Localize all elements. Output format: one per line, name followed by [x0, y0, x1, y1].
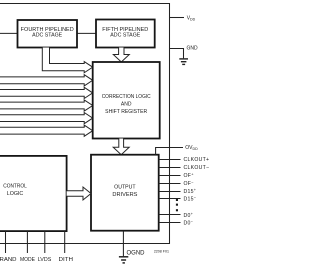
ellipsis dots between D15- and D0+ [176, 199, 178, 211]
svg-text:GND: GND [187, 46, 199, 52]
pin CLKOUT+ [159, 157, 210, 163]
block U5: FIFTH PIPELINED ADC STAGE [96, 20, 155, 48]
pin D0- [159, 218, 194, 226]
pin OGND wire [123, 231, 145, 257]
pin D15- [159, 194, 197, 202]
svg-text:MODE: MODE [20, 257, 36, 263]
pin D0+ [159, 211, 194, 219]
svg-text:CLKOUT+: CLKOUT+ [184, 157, 210, 163]
svg-text:SHIFT REGISTER: SHIFT REGISTER [105, 109, 147, 115]
svg-text:CLKOUT−: CLKOUT− [184, 165, 210, 171]
pin OF+ [159, 171, 195, 179]
bus arrow A5 from left edge into correction logic [0, 113, 93, 124]
chip outline [0, 4, 170, 244]
bus arrow A2 from left edge into correction logic [0, 75, 93, 86]
svg-text:CORRECTION LOGIC: CORRECTION LOGIC [102, 94, 151, 100]
svg-text:2208 F01: 2208 F01 [154, 249, 169, 253]
pin D15+ [159, 187, 197, 195]
svg-text:RAND: RAND [0, 257, 17, 263]
pin LVDS [38, 231, 52, 263]
svg-text:ADC STAGE: ADC STAGE [110, 33, 141, 39]
block U4: FOURTH PIPELINED ADC STAGE [18, 20, 78, 48]
svg-text:DITH: DITH [59, 257, 74, 263]
pin DITH [59, 231, 74, 263]
svg-text:DRIVERS: DRIVERS [112, 192, 137, 198]
bus arrow A7: fifth stage down into correction logic [113, 48, 129, 63]
ground symbol at GND [179, 59, 188, 65]
wire fourth stage to fifth stage [77, 32, 96, 34]
pin GND wire [170, 46, 199, 59]
svg-text:LOGIC: LOGIC [7, 191, 24, 197]
pin CLKOUT- [159, 165, 210, 171]
svg-text:LVDS: LVDS [38, 257, 52, 263]
ground symbol at OGND [119, 257, 128, 263]
bus arrow A1: fourth stage down-right into correction logic [42, 48, 92, 73]
svg-text:OUTPUT: OUTPUT [114, 184, 136, 190]
block U7: OUTPUT DRIVERS [91, 155, 159, 231]
pin VDD [170, 16, 196, 22]
block U6: CORRECTION LOGIC AND SHIFT REGISTER [93, 62, 160, 139]
bus arrow A4 from left edge into correction logic [0, 100, 93, 111]
wire into fourth stage [0, 32, 18, 34]
pin MODE [20, 231, 36, 263]
bus arrow A9: control logic right into output drivers [67, 187, 91, 200]
bus arrow A6 from left edge into correction logic [0, 125, 93, 136]
block U8: CONTROL LOGIC [0, 156, 67, 231]
svg-text:ADC STAGE: ADC STAGE [32, 33, 63, 39]
pin OF- [159, 179, 195, 187]
pin RAND [0, 231, 17, 263]
svg-text:AND: AND [121, 102, 132, 108]
bus arrow A3 from left edge into correction logic [0, 87, 93, 98]
svg-text:OGND: OGND [127, 250, 146, 256]
pin OVDD [156, 145, 199, 155]
bus arrow A8: correction logic down into output drivers [113, 139, 129, 155]
svg-text:CONTROL: CONTROL [3, 184, 27, 190]
